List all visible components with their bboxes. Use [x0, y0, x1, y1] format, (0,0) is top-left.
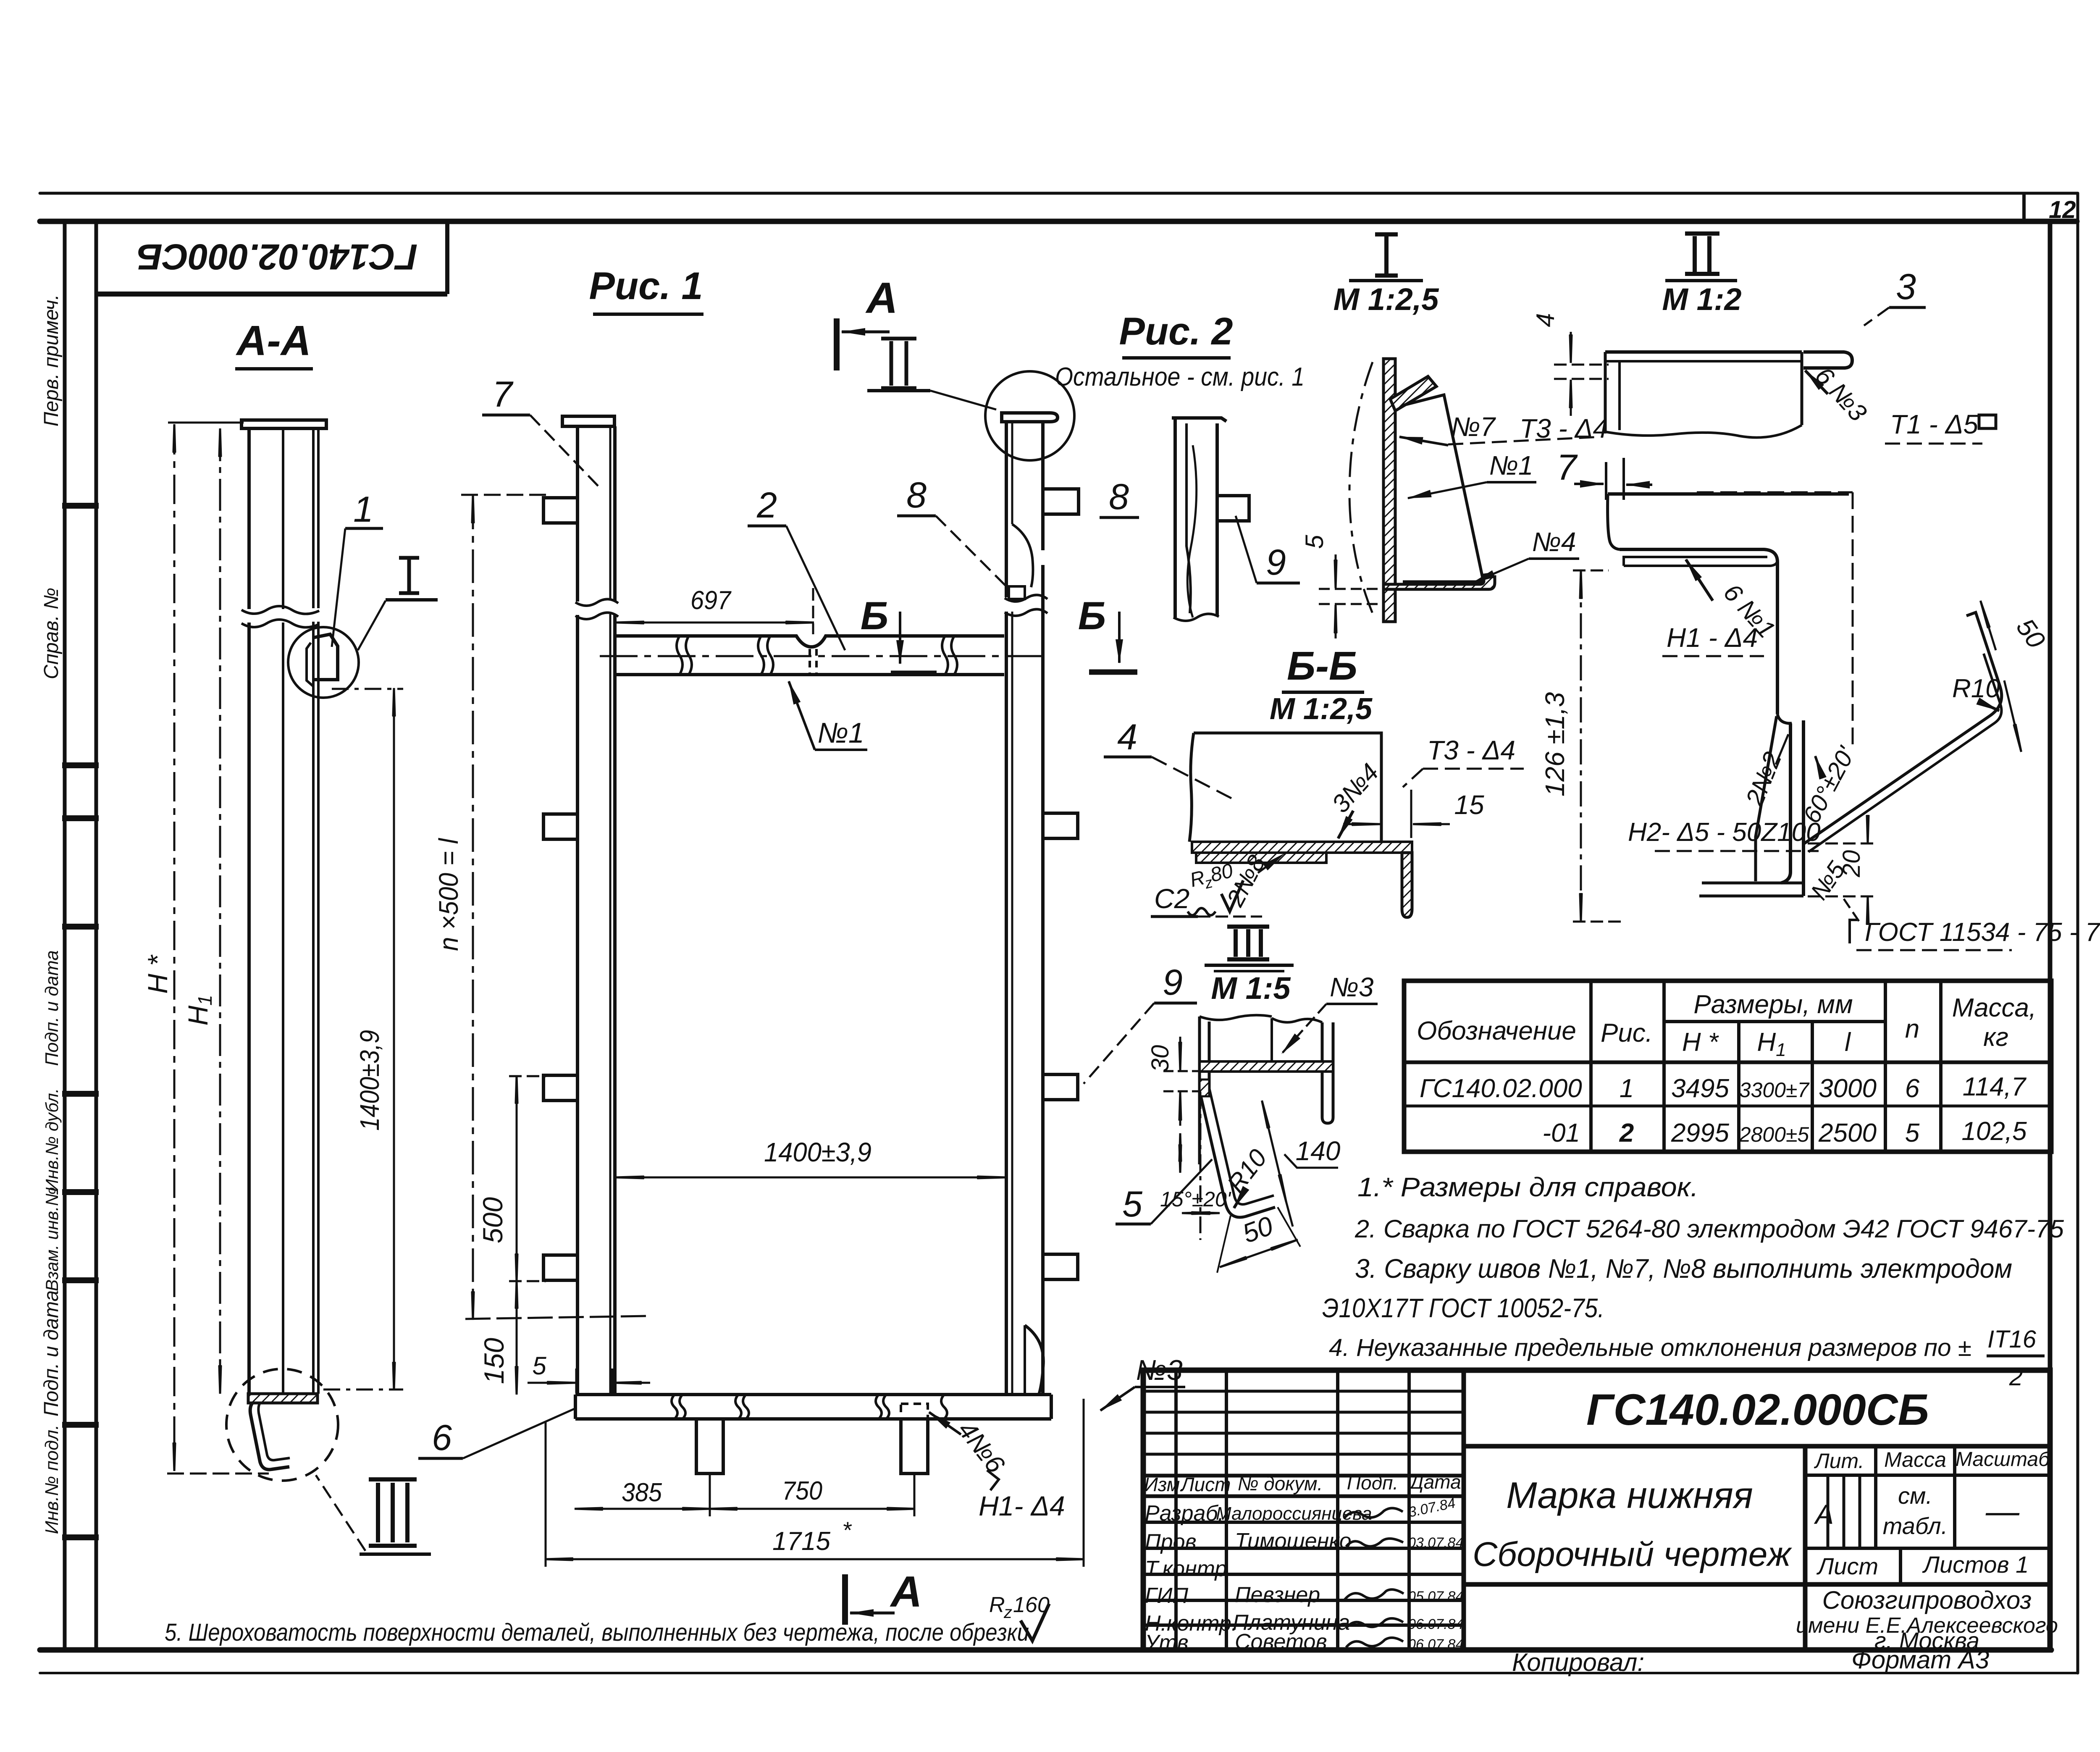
svg-text:№7: №7 [1451, 412, 1496, 442]
top rail (upper chord) [600, 636, 1042, 675]
left margin ticks [62, 506, 99, 1537]
bottom cap hatched bar [248, 1394, 318, 1403]
bottom rail [575, 1395, 1051, 1474]
doc cell bottom [1464, 1444, 2050, 1449]
lugs right column [1043, 489, 1079, 1279]
svg-text:102,5: 102,5 [1961, 1117, 2027, 1146]
svg-text:15°±20': 15°±20' [1160, 1187, 1231, 1211]
svg-text:Масштаб: Масштаб [1956, 1448, 2050, 1471]
signature rows [1143, 1521, 1464, 1524]
svg-text:4: 4 [1531, 313, 1559, 327]
masshtab col [1953, 1446, 1956, 1548]
svg-text:4: 4 [1117, 717, 1137, 757]
1400+-3,9 dimension [323, 689, 403, 1390]
svg-text:Б-Б: Б-Б [1287, 644, 1357, 688]
svg-text:2: 2 [756, 485, 777, 525]
left table upper thin rows [1143, 1390, 1464, 1393]
svg-text:5: 5 [1122, 1184, 1143, 1224]
column mid line [282, 428, 284, 1394]
vertical plate hatched [1383, 359, 1395, 622]
dashed ellipse outline [1349, 362, 1375, 618]
column left flange line [247, 428, 251, 1394]
svg-text:l: l [1845, 1028, 1851, 1057]
svg-text:Лист: Лист [1180, 1474, 1231, 1495]
svg-text:Союзгипроводхоз: Союзгипроводхоз [1822, 1586, 2032, 1614]
svg-text:1400±3,9: 1400±3,9 [354, 1030, 385, 1131]
bottom hook part [250, 1403, 289, 1470]
list row top [1805, 1547, 2050, 1550]
svg-text:ГС140.02.000СБ: ГС140.02.000СБ [137, 236, 417, 277]
svg-text:126 ±1,3: 126 ±1,3 [1540, 692, 1570, 796]
svg-text:Справ. №: Справ. № [40, 588, 63, 679]
svg-text:Подп.: Подп. [1347, 1472, 1398, 1494]
svg-text:А: А [865, 274, 898, 323]
lip under bar [1624, 557, 1767, 566]
svg-text:1400±3,9: 1400±3,9 [764, 1137, 871, 1167]
500 dimension [509, 1076, 546, 1394]
svg-text:Т3 - Δ4: Т3 - Δ4 [1427, 735, 1515, 765]
bent rod part N5 [1804, 612, 2002, 852]
doubler plate hatched [1196, 853, 1326, 863]
svg-text:Копировал:: Копировал: [1512, 1648, 1644, 1676]
title block outline [1143, 1370, 2050, 1650]
svg-text:Рис.: Рис. [1601, 1019, 1653, 1048]
wavy break lines [241, 606, 319, 614]
header row lines [1143, 1474, 1464, 1478]
svg-text:Подп. и дата: Подп. и дата [42, 950, 62, 1066]
svg-text:6: 6 [432, 1418, 452, 1458]
svg-text:Н1- Δ4: Н1- Δ4 [979, 1490, 1065, 1521]
Rz160 roughness mark [989, 1593, 1050, 1641]
svg-text:Б: Б [861, 594, 889, 638]
svg-text:05.07.84: 05.07.84 [1408, 1589, 1463, 1605]
massa col [1874, 1446, 1877, 1548]
svg-text:3000: 3000 [1819, 1074, 1877, 1103]
svg-text:ГС140.02.000СБ: ГС140.02.000СБ [1586, 1385, 1929, 1434]
lit sub columns [1827, 1475, 1830, 1548]
svg-text:Т1 - Δ5: Т1 - Δ5 [1890, 409, 1979, 439]
svg-text:ГОСТ 11534 - 75 - 71: ГОСТ 11534 - 75 - 71 [1865, 918, 2100, 947]
svg-text:Масса,: Масса, [1952, 993, 2037, 1022]
detail mark II upper [881, 339, 916, 388]
n x 500 = l dimension [461, 495, 647, 1319]
svg-text:Лит.: Лит. [1814, 1449, 1864, 1473]
left margin vertical labels [40, 294, 63, 1534]
left margin line 1 [63, 221, 67, 1650]
svg-text:R10: R10 [1952, 674, 2000, 703]
marka cell bottom / listov row bottom [1464, 1582, 2050, 1587]
svg-text:табл.: табл. [1883, 1513, 1948, 1539]
detail mark I with leader [399, 558, 419, 593]
svg-text:114,7: 114,7 [1963, 1072, 2027, 1101]
svg-text:4. Неуказанные предельные откл: 4. Неуказанные предельные отклонения раз… [1329, 1334, 1971, 1361]
bent top flange [1390, 376, 1436, 411]
detail mark III with leader at bottom [369, 1479, 417, 1546]
svg-text:n ×500 = l: n ×500 = l [433, 838, 464, 951]
hook strip [1200, 1090, 1275, 1217]
svg-text:Изм.: Изм. [1144, 1474, 1185, 1495]
svg-text:1.* Размеры для справок.: 1.* Размеры для справок. [1357, 1172, 1698, 1202]
main divider left table / doc cell [1462, 1370, 1466, 1650]
signatures squiggles [1344, 1508, 1404, 1647]
svg-text:см.: см. [1898, 1482, 1932, 1509]
sheet outer thin border bottom [40, 1672, 2078, 1674]
svg-text:—: — [1985, 1492, 2020, 1530]
svg-text:12: 12 [2049, 196, 2076, 223]
svg-text:5: 5 [1300, 535, 1328, 549]
page number box [2022, 195, 2026, 221]
svg-text:15: 15 [1454, 790, 1484, 820]
svg-text:2500: 2500 [1818, 1119, 1877, 1148]
left table verticals [1174, 1370, 1178, 1650]
svg-text:Советов: Советов [1235, 1630, 1327, 1654]
svg-text:Дата: Дата [1408, 1471, 1461, 1493]
svg-text:Н2- Δ5 - 50Z100: Н2- Δ5 - 50Z100 [1628, 818, 1821, 847]
svg-text:7: 7 [1557, 447, 1578, 488]
svg-text:1: 1 [1620, 1074, 1634, 1103]
lug of part 9 [1217, 496, 1249, 521]
svg-text:Н1 - Δ4: Н1 - Δ4 [1667, 623, 1758, 653]
inner frame bottom thick [40, 1647, 2051, 1653]
RIS.2 channel piece (part 9 view) [1172, 418, 1249, 621]
svg-text:№3: №3 [1136, 1354, 1183, 1386]
svg-text:Пров.: Пров. [1145, 1530, 1202, 1554]
svg-text:30: 30 [1147, 1045, 1174, 1072]
svg-text:А: А [889, 1568, 922, 1616]
svg-text:3. Сварку швов №1, №7, №8 в: 3. Сварку швов №1, №7, №8 выполнить элек… [1355, 1253, 2012, 1284]
svg-text:М 1:2: М 1:2 [1662, 282, 1741, 317]
svg-text:R: R [989, 1593, 1005, 1617]
svg-text:5. Шероховатость поверхности: 5. Шероховатость поверхности деталей, вы… [165, 1619, 1029, 1646]
svg-text:-01: -01 [1542, 1119, 1580, 1148]
svg-text:z: z [1003, 1603, 1012, 1622]
feet [696, 1419, 723, 1474]
svg-text:06.07.84: 06.07.84 [1408, 1616, 1463, 1632]
svg-text:Листов 1: Листов 1 [1922, 1551, 2029, 1578]
svg-text:697: 697 [690, 586, 732, 615]
hook part 1 at top (inside circle I) [313, 634, 338, 680]
svg-text:Рис. 1: Рис. 1 [589, 265, 703, 307]
column web double line [312, 428, 315, 1394]
lugs left column [543, 498, 577, 1280]
svg-text:5: 5 [1905, 1119, 1920, 1148]
svg-text:7: 7 [492, 374, 514, 415]
svg-text:2800±5: 2800±5 [1739, 1123, 1809, 1146]
svg-text:Сборочный чертеж: Сборочный чертеж [1473, 1535, 1792, 1573]
svg-text:1715: 1715 [772, 1527, 831, 1556]
III figure [1200, 1015, 1333, 1217]
inner frame right thick [2048, 221, 2053, 1650]
svg-text:Разраб.: Разраб. [1145, 1501, 1224, 1526]
svg-text:8: 8 [1109, 477, 1129, 517]
svg-text:С2: С2 [1154, 883, 1189, 914]
right angle piece [1192, 842, 1412, 853]
svg-text:*: * [842, 1517, 852, 1543]
svg-text:Утв.: Утв. [1144, 1631, 1194, 1655]
left margin line 2 (drawing frame left) [94, 221, 98, 1650]
web rectangle [1189, 733, 1381, 842]
svg-text:ГС140.02.000: ГС140.02.000 [1420, 1074, 1582, 1103]
svg-text:М 1:2,5: М 1:2,5 [1270, 692, 1373, 726]
svg-text:3: 3 [1896, 267, 1916, 307]
svg-text:Взам. инв.№: Взам. инв.№ [42, 1187, 62, 1291]
svg-text:Размеры, мм: Размеры, мм [1693, 990, 1853, 1019]
svg-text:9: 9 [1163, 962, 1183, 1003]
lit/massa/masshtab header bottom [1805, 1474, 2050, 1477]
sheet outer thin border top [40, 192, 2078, 195]
GOST 11534 callout [1850, 920, 1857, 943]
curved seam right column bottom [1025, 1325, 1043, 1394]
svg-text:Э10Х17Т ГОСТ 10052-75.: Э10Х17Т ГОСТ 10052-75. [1322, 1293, 1604, 1323]
svg-text:Лист: Лист [1816, 1553, 1878, 1579]
svg-text:Певзнер: Певзнер [1235, 1583, 1320, 1607]
curved plate seam in right column top [1012, 524, 1033, 587]
H* dimension [167, 423, 269, 1474]
svg-text:А: А [1814, 1499, 1834, 1530]
svg-text:Т.контр.: Т.контр. [1145, 1557, 1233, 1581]
detail circle II around right column top [985, 371, 1074, 460]
svg-text:кг: кг [1983, 1023, 2008, 1052]
svg-text:№ докум.: № докум. [1238, 1473, 1323, 1495]
svg-text:Перв. примеч.: Перв. примеч. [40, 294, 63, 427]
svg-text:n: n [1905, 1014, 1919, 1043]
svg-text:Остальное - см. рис. 1: Остальное - см. рис. 1 [1055, 362, 1305, 391]
list / listov divider [1899, 1548, 1902, 1584]
trapezoid part [1403, 395, 1483, 582]
svg-text:385: 385 [622, 1478, 662, 1507]
svg-text:№1: №1 [1489, 450, 1533, 481]
svg-text:5: 5 [532, 1352, 546, 1380]
svg-text:3495: 3495 [1671, 1074, 1729, 1103]
svg-text:Б: Б [1078, 594, 1106, 638]
lower bar (lug) [1608, 492, 1849, 496]
svg-text:8: 8 [906, 475, 927, 515]
H1 dimension [219, 429, 221, 1393]
bottom flange [1383, 574, 1495, 589]
sheet outer right border [2076, 193, 2079, 1673]
svg-text:ГИП: ГИП [1145, 1584, 1188, 1608]
svg-text:140: 140 [1296, 1136, 1341, 1166]
part 3 small bar at right [1803, 352, 1852, 368]
svg-text:2. Сварка по ГОСТ 5264-80 эле: 2. Сварка по ГОСТ 5264-80 электродом Э42… [1354, 1215, 2064, 1243]
detail circle I [288, 627, 359, 698]
svg-text:9: 9 [1266, 542, 1286, 583]
svg-text:Марка нижняя: Марка нижняя [1506, 1474, 1753, 1516]
svg-text:Масса: Масса [1884, 1448, 1946, 1471]
svg-text:Обозначение: Обозначение [1417, 1017, 1576, 1045]
svg-text:03.07.84: 03.07.84 [1408, 1535, 1463, 1551]
svg-text:Инв.№ подл.: Инв.№ подл. [42, 1425, 62, 1534]
C-shape weld detail [1697, 492, 1853, 896]
svg-text:2995: 2995 [1671, 1119, 1729, 1148]
svg-text:150: 150 [478, 1338, 509, 1384]
II figure: top bar (cap plate + web) [1605, 352, 1852, 714]
svg-text:500: 500 [477, 1197, 508, 1243]
right column of frame [1002, 413, 1058, 1394]
svg-text:3300±7: 3300±7 [1739, 1078, 1810, 1102]
svg-text:06.07.84: 06.07.84 [1408, 1636, 1463, 1652]
inner frame top thick [40, 219, 2077, 224]
svg-text:Тимошенко: Тимошенко [1235, 1529, 1352, 1553]
svg-text:Н *: Н * [142, 954, 173, 994]
svg-text:1: 1 [353, 489, 373, 530]
svg-text:Рис. 2: Рис. 2 [1119, 310, 1233, 353]
svg-text:№4: №4 [1532, 527, 1576, 557]
svg-text:М 1:2,5: М 1:2,5 [1333, 282, 1440, 317]
svg-text:М 1:5: М 1:5 [1211, 971, 1291, 1006]
column top cap plate [241, 420, 326, 428]
bottom detail circle (dashed) [226, 1369, 338, 1481]
svg-text:Н *: Н * [1682, 1028, 1719, 1057]
svg-text:Инв.№ дубл.: Инв.№ дубл. [42, 1088, 62, 1192]
svg-text:750: 750 [782, 1476, 822, 1505]
right columns start [1803, 1446, 1808, 1650]
svg-text:2: 2 [2009, 1363, 2023, 1391]
svg-text:№3: №3 [1330, 972, 1374, 1002]
svg-text:Формат А3: Формат А3 [1851, 1646, 1989, 1674]
left column of frame [562, 416, 618, 1394]
svg-text:IТ16: IТ16 [1987, 1326, 2037, 1353]
svg-text:Подп. и дата: Подп. и дата [40, 1290, 63, 1417]
svg-text:№1: №1 [817, 717, 864, 749]
svg-text:2: 2 [1619, 1119, 1634, 1148]
top-left rotated doc-number box [98, 221, 447, 294]
svg-text:А-А: А-А [235, 317, 311, 364]
svg-text:6: 6 [1905, 1074, 1920, 1103]
